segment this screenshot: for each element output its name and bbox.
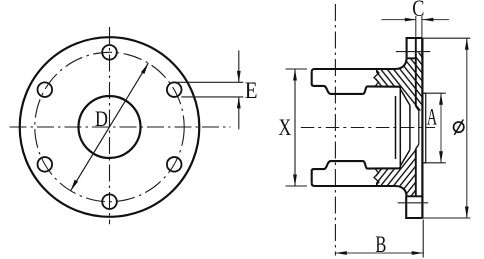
diameter extension top bbox=[423, 37, 471, 39]
label X bbox=[279, 116, 292, 141]
flange web left face upper bbox=[415, 38, 417, 106]
E arrow down bbox=[237, 71, 241, 82]
A extension bottom bbox=[424, 162, 446, 164]
arrow D upper bbox=[141, 63, 148, 74]
label C bbox=[412, 0, 424, 22]
arrow D lower bbox=[71, 180, 78, 191]
svg-text:C: C bbox=[412, 0, 424, 22]
web chamfer bottom bbox=[416, 144, 419, 148]
B extension right bbox=[422, 220, 424, 258]
bottom rim rect bbox=[406, 196, 422, 218]
bolt hole 30deg bbox=[167, 82, 182, 97]
centerline vertical (right view) bbox=[334, 4, 336, 256]
label D bbox=[95, 107, 108, 131]
web chamfer top bbox=[416, 106, 419, 110]
svg-text:D: D bbox=[95, 107, 108, 131]
dimension B line bbox=[335, 252, 423, 254]
bolt hole wall in top rect bbox=[421, 38, 423, 58]
bolt hole 90deg bbox=[102, 45, 117, 60]
bottom ear left edge and stepped inner profile bbox=[312, 161, 401, 183]
flange web left face lower bbox=[415, 149, 417, 197]
hatching upper flange section bbox=[319, 40, 475, 115]
centerline horizontal (right view) bbox=[301, 127, 435, 129]
top rim rect bottom edge bbox=[407, 57, 416, 59]
E tangent line top bbox=[176, 81, 244, 83]
weld zigzag top bbox=[374, 70, 379, 87]
diameter arrow up bbox=[465, 38, 469, 50]
dimension D diagonal line bbox=[71, 63, 149, 191]
bore wall corner vertical bbox=[399, 88, 401, 167]
top rim rect bbox=[407, 38, 423, 58]
diameter symbol circle bbox=[454, 122, 464, 132]
label E bbox=[245, 77, 258, 103]
bolt hole 330deg bbox=[167, 157, 182, 172]
bore wall near bbox=[409, 105, 411, 149]
diameter extension bottom bbox=[423, 217, 471, 219]
svg-text:E: E bbox=[245, 77, 258, 103]
flange face line bbox=[421, 38, 423, 218]
top yoke ear outer edge with fillet bbox=[312, 58, 407, 71]
bore wall far bbox=[395, 96, 397, 159]
svg-text:A: A bbox=[427, 105, 438, 130]
B arrow left bbox=[335, 251, 347, 255]
bolt circle (dash-dot) bbox=[35, 52, 184, 201]
bolt hole 210deg bbox=[38, 157, 53, 172]
dimension X line bbox=[294, 69, 296, 186]
bolt hole line bottom (side view) bbox=[398, 202, 429, 204]
C extension line right bbox=[421, 16, 423, 38]
bolt hole line top (side view) bbox=[396, 51, 430, 53]
A extension top bbox=[424, 92, 446, 94]
bolt hole 150deg bbox=[38, 82, 53, 97]
top ear left edge and stepped inner profile bbox=[312, 72, 401, 94]
label B bbox=[375, 232, 386, 257]
bottom rim rect top edge bbox=[406, 195, 422, 197]
diameter arrow down bbox=[465, 207, 469, 219]
flange outer circle bbox=[20, 37, 200, 217]
bolt hole 270deg bbox=[102, 194, 117, 209]
E dim vertical upper bbox=[238, 50, 240, 82]
svg-text:X: X bbox=[279, 116, 292, 141]
C extension line left bbox=[415, 16, 417, 38]
E arrow up bbox=[237, 97, 241, 108]
label A bbox=[427, 105, 438, 130]
X arrow down bbox=[293, 175, 297, 187]
cone top bbox=[400, 89, 410, 105]
B arrow right bbox=[412, 251, 424, 255]
bottom yoke ear outer edge with fillet bbox=[312, 183, 407, 196]
arrow C right-pointing bbox=[405, 18, 416, 22]
pilot ring bbox=[422, 93, 425, 163]
E dim vertical lower bbox=[238, 97, 240, 129]
centerline horizontal (left flange view) bbox=[10, 126, 231, 128]
E tangent line bottom bbox=[181, 96, 243, 98]
arrow C left-pointing bbox=[422, 18, 433, 22]
X extension top bbox=[286, 68, 308, 70]
cone bottom bbox=[400, 150, 410, 166]
weld zigzag bottom bbox=[374, 169, 379, 186]
A arrow up bbox=[439, 93, 443, 105]
dimension A line bbox=[440, 93, 442, 163]
dimension C leader right bbox=[422, 19, 449, 21]
recess bottom vertical bbox=[418, 111, 420, 145]
centerline vertical (left flange view) bbox=[109, 27, 111, 224]
hatching lower flange section bbox=[319, 140, 475, 215]
dimension diameter line bbox=[466, 38, 468, 218]
X extension bottom bbox=[286, 185, 308, 187]
diameter symbol slash bbox=[454, 120, 463, 135]
svg-text:B: B bbox=[375, 232, 386, 257]
center bore circle bbox=[79, 96, 141, 158]
dimension C leader left bbox=[381, 19, 415, 21]
X arrow up bbox=[293, 69, 297, 81]
A arrow down bbox=[439, 151, 443, 163]
